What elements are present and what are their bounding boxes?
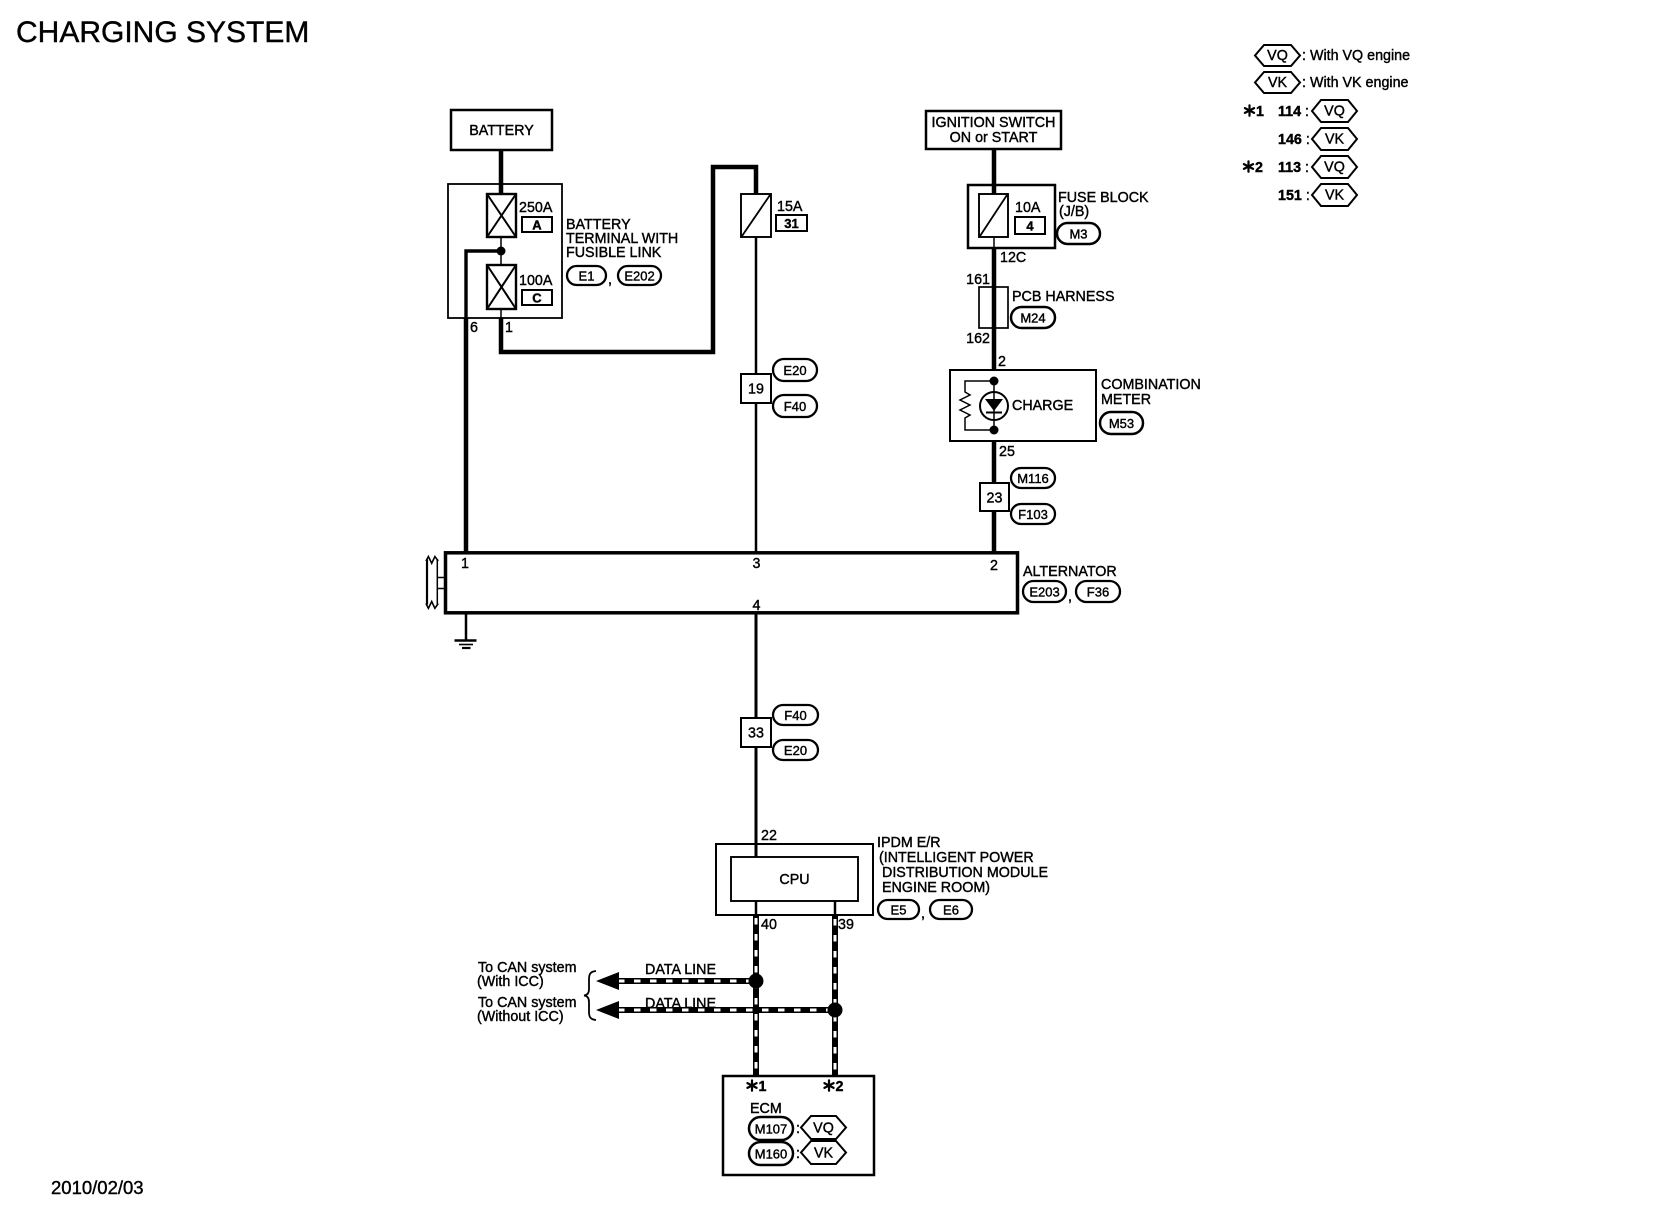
svg-text:6: 6	[470, 320, 478, 336]
svg-text:VK: VK	[814, 1146, 834, 1162]
svg-text:F103: F103	[1018, 507, 1048, 522]
svg-text:E5: E5	[891, 903, 907, 918]
svg-text:VK: VK	[1325, 132, 1345, 148]
svg-text:ON or START: ON or START	[950, 130, 1038, 146]
svg-text:12C: 12C	[1000, 250, 1026, 266]
svg-text:M53: M53	[1109, 416, 1134, 431]
svg-text:(J/B): (J/B)	[1059, 204, 1089, 220]
svg-text:METER: METER	[1101, 392, 1151, 408]
svg-text:CPU: CPU	[779, 872, 809, 888]
svg-text:2: 2	[1255, 160, 1263, 176]
svg-text:ALTERNATOR: ALTERNATOR	[1023, 564, 1117, 580]
svg-text:250A: 250A	[519, 200, 553, 216]
svg-text:VQ: VQ	[1324, 160, 1345, 176]
svg-text:1: 1	[461, 556, 469, 572]
svg-text:2: 2	[990, 558, 998, 574]
svg-text:IPDM E/R: IPDM E/R	[877, 835, 941, 851]
svg-text:VK: VK	[1325, 188, 1345, 204]
svg-text:COMBINATION: COMBINATION	[1101, 377, 1201, 393]
svg-text:: With VQ engine: : With VQ engine	[1302, 48, 1410, 64]
svg-text:VQ: VQ	[813, 1121, 834, 1137]
svg-text:E1: E1	[579, 269, 595, 284]
svg-text:F36: F36	[1087, 585, 1109, 600]
svg-text:CHARGE: CHARGE	[1012, 398, 1073, 414]
svg-text:ENGINE ROOM): ENGINE ROOM)	[882, 880, 990, 896]
svg-text::: :	[796, 1121, 800, 1137]
svg-text:E20: E20	[783, 363, 806, 378]
svg-text:3: 3	[753, 556, 761, 572]
svg-text:1: 1	[759, 1079, 767, 1095]
svg-text:100A: 100A	[519, 273, 553, 289]
svg-text:IGNITION SWITCH: IGNITION SWITCH	[932, 115, 1056, 131]
svg-text:E202: E202	[624, 269, 654, 284]
svg-text:A: A	[532, 218, 542, 233]
svg-text:2: 2	[836, 1079, 844, 1095]
svg-text:F40: F40	[784, 399, 806, 414]
svg-text:DATA LINE: DATA LINE	[645, 996, 716, 1012]
svg-text:2: 2	[998, 354, 1006, 370]
svg-text:19: 19	[748, 382, 764, 398]
svg-text:M24: M24	[1020, 311, 1045, 326]
svg-text:PCB HARNESS: PCB HARNESS	[1012, 289, 1115, 305]
svg-text:4: 4	[753, 598, 761, 614]
svg-text:22: 22	[761, 828, 777, 844]
svg-text:C: C	[532, 291, 542, 306]
svg-text:31: 31	[784, 216, 798, 231]
svg-text:25: 25	[999, 444, 1015, 460]
svg-text:DISTRIBUTION MODULE: DISTRIBUTION MODULE	[882, 865, 1048, 881]
svg-text:E6: E6	[943, 903, 959, 918]
svg-text:E20: E20	[784, 743, 807, 758]
svg-text:1: 1	[505, 320, 513, 336]
svg-text:113 :: 113 :	[1278, 160, 1309, 176]
svg-text:151 :: 151 :	[1278, 188, 1310, 204]
svg-text:114 :: 114 :	[1278, 104, 1309, 120]
svg-text:2010/02/03: 2010/02/03	[51, 1177, 144, 1198]
svg-text:39: 39	[838, 917, 854, 933]
svg-text:(Without ICC): (Without ICC)	[477, 1009, 564, 1025]
svg-text:M3: M3	[1069, 227, 1087, 242]
svg-text:DATA LINE: DATA LINE	[645, 962, 716, 978]
svg-text:(INTELLIGENT POWER: (INTELLIGENT POWER	[879, 850, 1034, 866]
svg-text:1: 1	[1256, 104, 1264, 120]
svg-text:VQ: VQ	[1324, 104, 1345, 120]
svg-text:ECM: ECM	[750, 1101, 782, 1117]
svg-text:23: 23	[987, 491, 1003, 507]
svg-text:40: 40	[761, 917, 777, 933]
svg-text:CHARGING SYSTEM: CHARGING SYSTEM	[16, 16, 309, 49]
svg-text:162: 162	[966, 331, 990, 347]
svg-text:,: ,	[921, 906, 925, 922]
svg-text:15A: 15A	[777, 199, 803, 215]
svg-text:BATTERY: BATTERY	[469, 123, 534, 139]
svg-text:,: ,	[608, 272, 612, 288]
svg-text:33: 33	[748, 726, 764, 742]
svg-text:161: 161	[966, 272, 990, 288]
svg-text:4: 4	[1026, 219, 1034, 234]
svg-text:E203: E203	[1029, 585, 1059, 600]
svg-text:M107: M107	[755, 1122, 788, 1137]
svg-text::: :	[796, 1146, 800, 1162]
svg-text:: With VK engine: : With VK engine	[1302, 75, 1409, 91]
svg-text:,: ,	[1068, 589, 1072, 605]
svg-text:VQ: VQ	[1267, 48, 1288, 64]
svg-text:146 :: 146 :	[1278, 132, 1310, 148]
svg-text:F40: F40	[784, 708, 806, 723]
svg-text:M116: M116	[1017, 471, 1049, 486]
svg-text:(With ICC): (With ICC)	[477, 974, 544, 990]
svg-text:FUSIBLE LINK: FUSIBLE LINK	[566, 245, 662, 261]
svg-text:VK: VK	[1268, 75, 1288, 91]
svg-text:M160: M160	[755, 1147, 788, 1162]
svg-text:10A: 10A	[1015, 200, 1041, 216]
